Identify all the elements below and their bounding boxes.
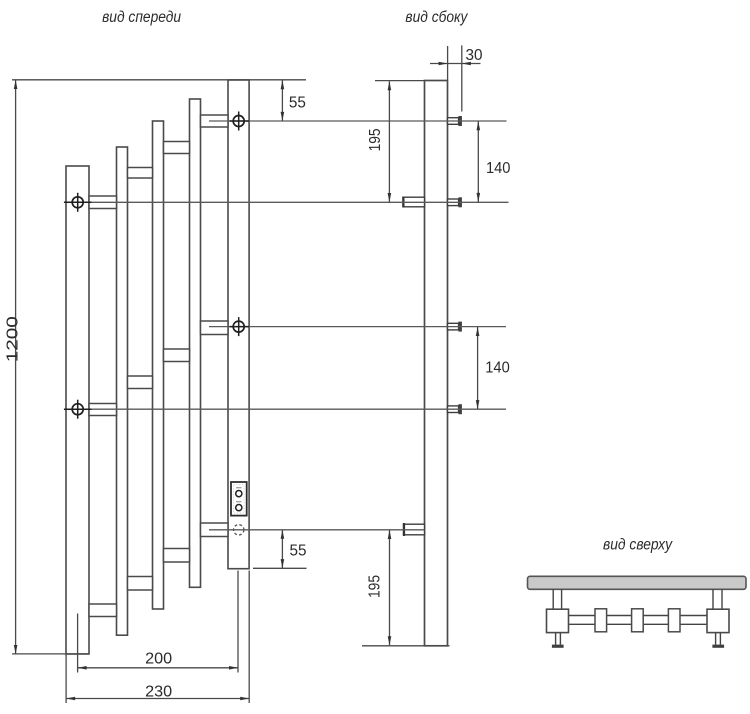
svg-text:200: 200 [145,651,172,668]
svg-text:140: 140 [486,160,511,177]
svg-text:1200: 1200 [4,316,21,362]
svg-text:вид сбоку: вид сбоку [405,9,468,26]
svg-text:вид спереди: вид спереди [102,9,181,26]
svg-text:вид сверху: вид сверху [603,536,673,553]
svg-text:230: 230 [145,683,172,700]
svg-text:30: 30 [466,47,483,64]
svg-text:140: 140 [485,360,510,377]
svg-text:195: 195 [367,575,384,598]
svg-text:55: 55 [289,94,306,111]
svg-text:55: 55 [290,543,307,560]
svg-text:195: 195 [367,128,384,151]
